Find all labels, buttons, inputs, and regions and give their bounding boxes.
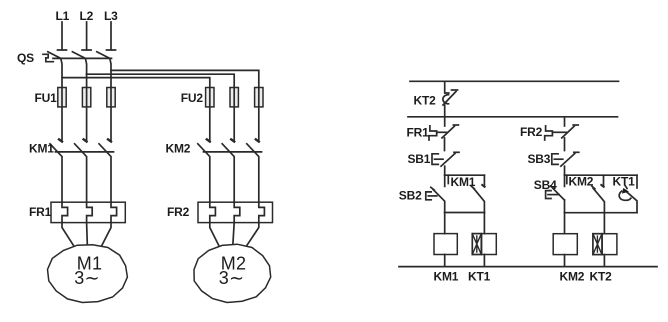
- svg-text:SB3: SB3: [528, 152, 551, 166]
- svg-text:FR2: FR2: [167, 205, 190, 219]
- svg-text:KT1: KT1: [468, 270, 491, 284]
- svg-text:SB2: SB2: [399, 189, 422, 203]
- svg-text:KM2: KM2: [166, 141, 191, 155]
- svg-text:3∼: 3∼: [74, 268, 100, 288]
- svg-text:FU2: FU2: [181, 91, 204, 105]
- svg-text:L1: L1: [56, 9, 70, 23]
- svg-text:FR2: FR2: [520, 125, 543, 139]
- svg-text:L3: L3: [104, 9, 118, 23]
- svg-text:FU1: FU1: [35, 91, 58, 105]
- svg-text:KM2: KM2: [560, 270, 585, 284]
- svg-text:FR1: FR1: [29, 205, 52, 219]
- svg-text:KM1: KM1: [451, 175, 476, 189]
- svg-text:KM1: KM1: [29, 141, 54, 155]
- svg-text:FR1: FR1: [407, 126, 430, 140]
- svg-text:QS: QS: [17, 51, 34, 65]
- svg-text:SB1: SB1: [408, 152, 431, 166]
- svg-text:KT2: KT2: [414, 94, 437, 108]
- svg-text:KM2: KM2: [569, 175, 594, 189]
- svg-text:3∼: 3∼: [219, 268, 245, 288]
- svg-text:KM1: KM1: [434, 270, 459, 284]
- svg-text:L2: L2: [80, 9, 94, 23]
- svg-text:KT2: KT2: [590, 270, 613, 284]
- svg-text:KT1: KT1: [613, 175, 636, 189]
- svg-text:SB4: SB4: [534, 178, 557, 192]
